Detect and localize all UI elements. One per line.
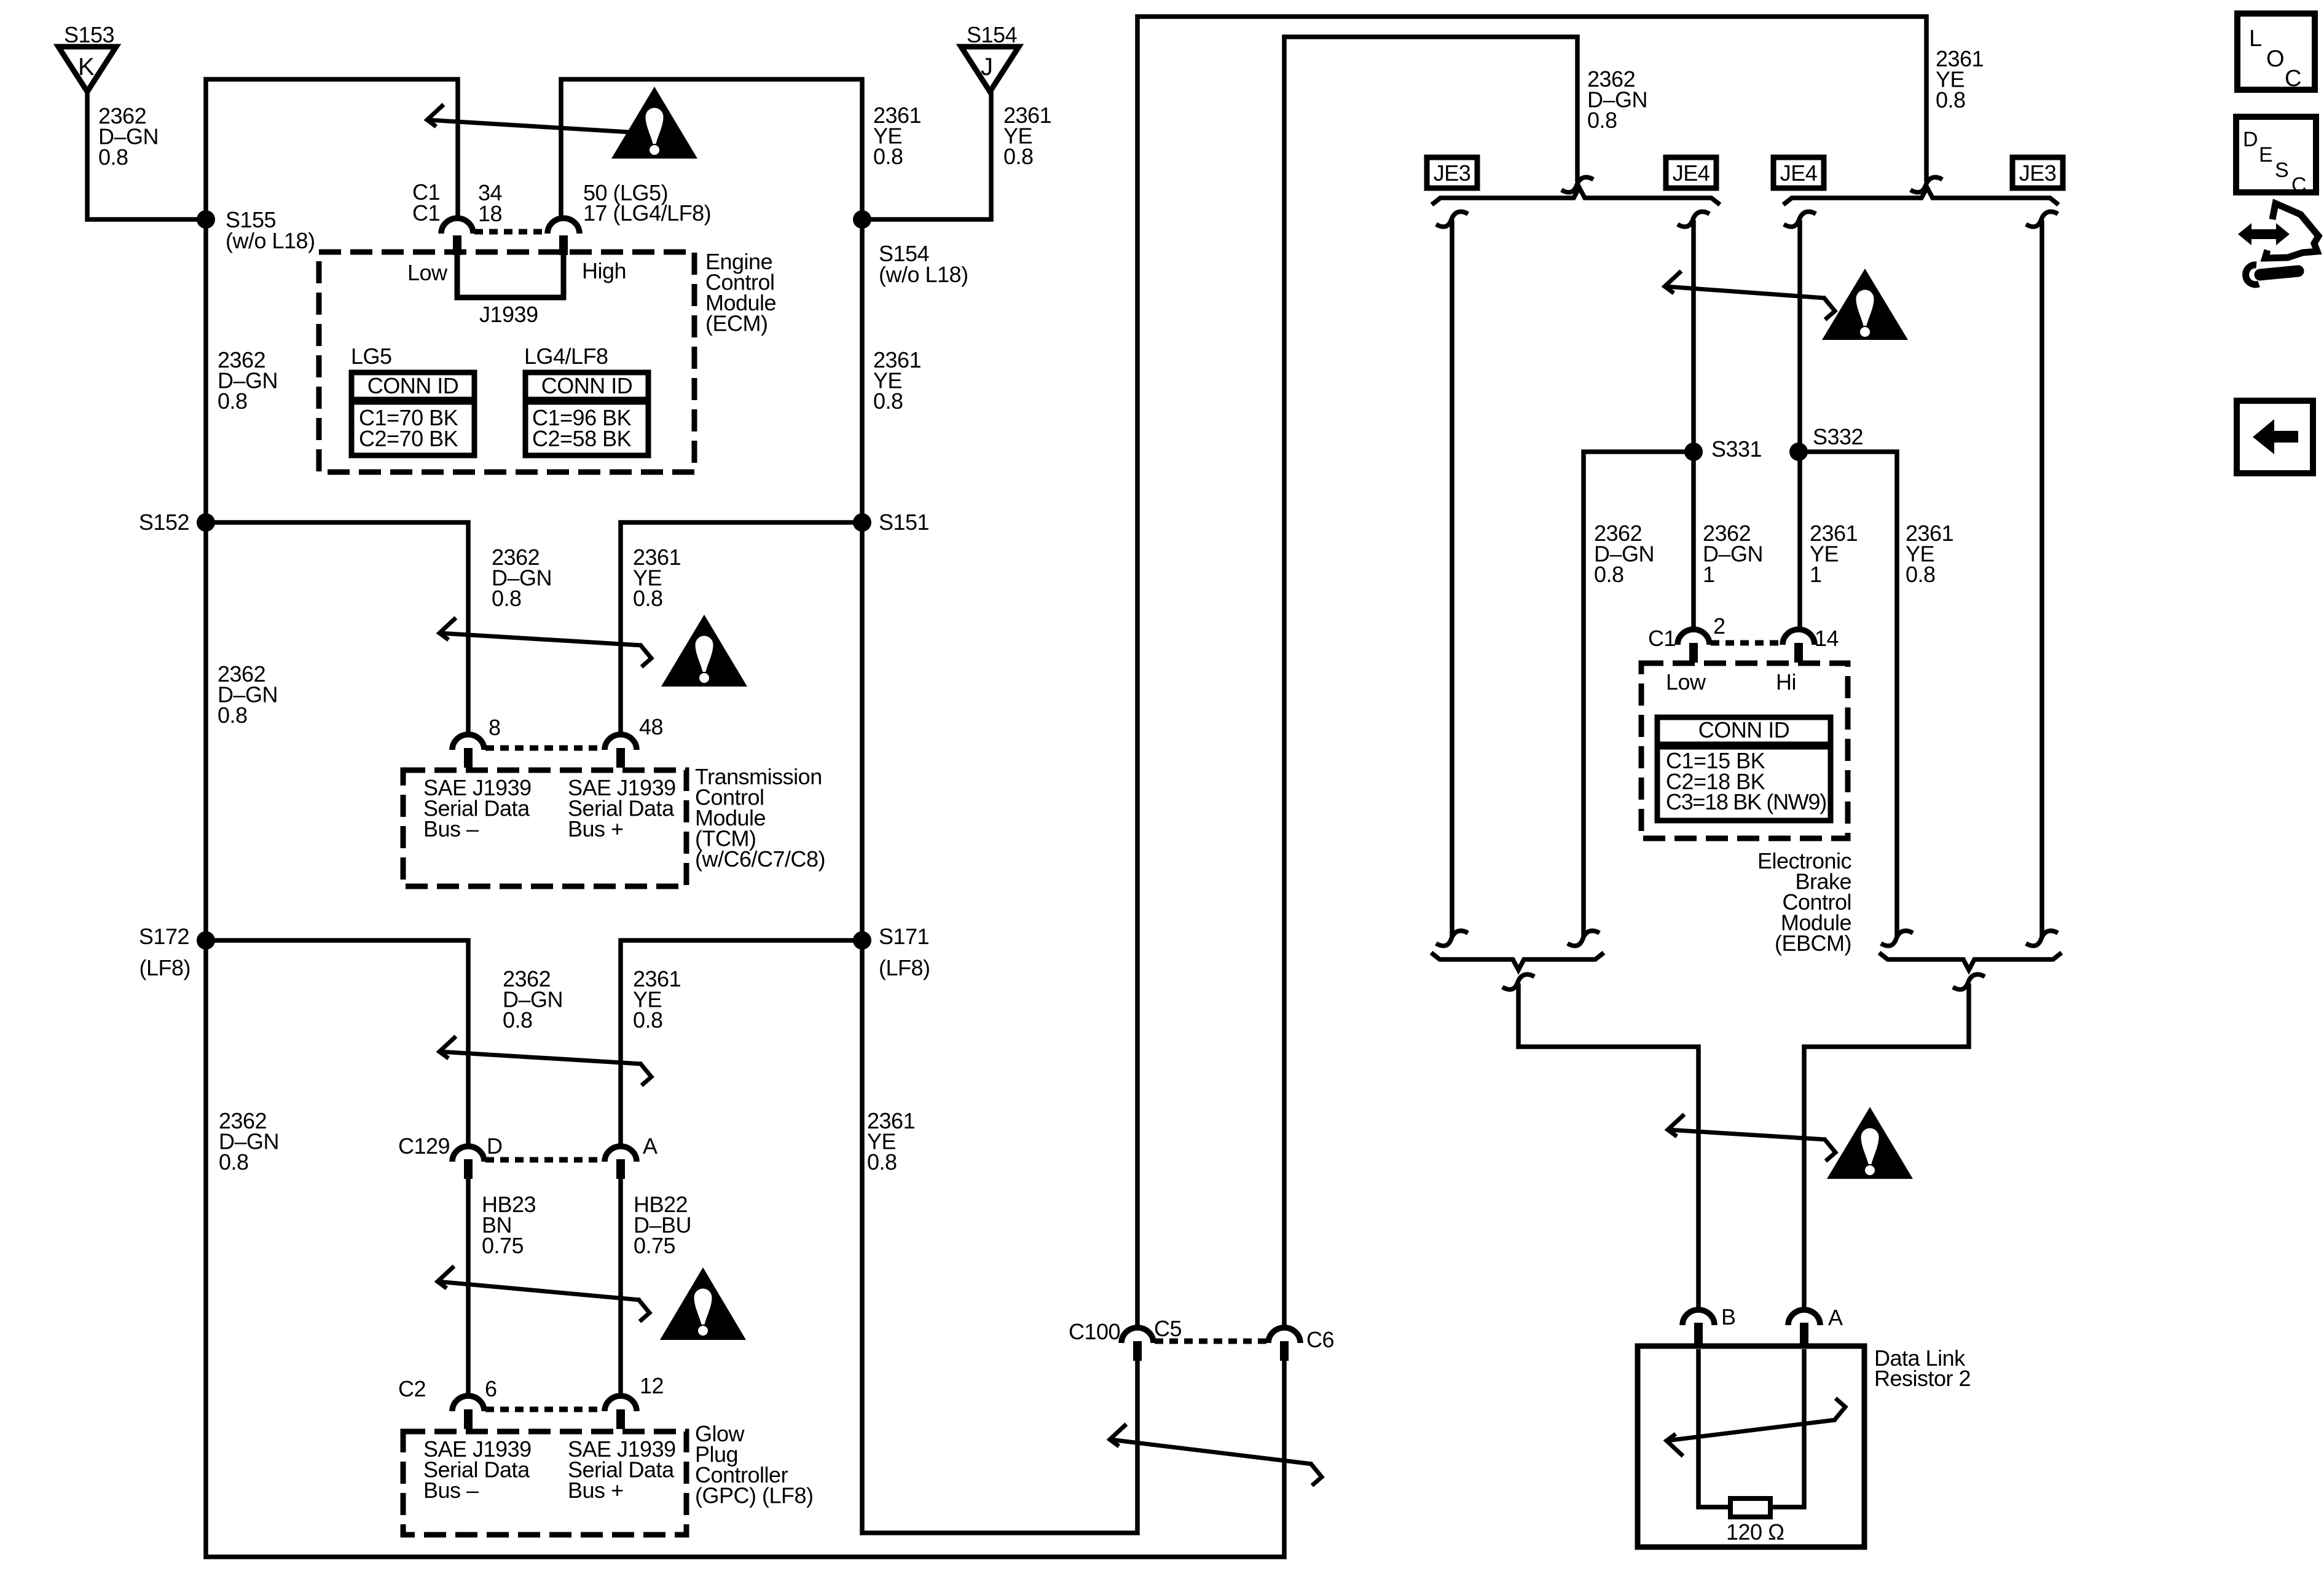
svg-text:B: B [1721,1304,1736,1329]
svg-text:120 Ω: 120 Ω [1726,1519,1784,1545]
svg-text:2: 2 [1713,613,1725,639]
svg-text:C1: C1 [412,200,440,226]
svg-text:Low: Low [407,260,448,285]
svg-text:0.8: 0.8 [218,703,248,728]
svg-text:C3=18 BK (NW9): C3=18 BK (NW9) [1666,789,1826,814]
svg-text:(w/C6/C7/C8): (w/C6/C7/C8) [695,846,825,872]
svg-text:Bus +: Bus + [568,1478,624,1503]
svg-text:D: D [2243,128,2258,151]
svg-text:48: 48 [639,714,663,739]
svg-text:S331: S331 [1711,436,1762,462]
svg-text:S: S [2275,159,2288,182]
svg-text:C: C [2285,66,2301,92]
svg-text:C100: C100 [1069,1319,1120,1344]
svg-text:0.8: 0.8 [1003,144,1034,169]
svg-text:JE4: JE4 [1673,160,1710,186]
svg-text:0.8: 0.8 [873,144,903,169]
svg-text:0.8: 0.8 [218,388,248,414]
svg-text:O: O [2266,46,2284,72]
svg-text:0.8: 0.8 [1587,108,1617,133]
svg-text:C1: C1 [1648,626,1676,651]
svg-text:(ECM): (ECM) [705,311,767,336]
svg-text:D: D [487,1133,503,1159]
svg-text:Bus –: Bus – [423,1478,479,1503]
svg-text:Low: Low [1666,669,1706,695]
svg-text:LG4/LF8: LG4/LF8 [524,344,608,369]
svg-text:0.8: 0.8 [219,1149,249,1175]
svg-text:8: 8 [489,715,501,740]
svg-text:C2: C2 [398,1376,426,1401]
svg-text:K: K [78,53,95,81]
svg-text:0.8: 0.8 [1594,562,1624,587]
svg-text:Resistor 2: Resistor 2 [1874,1366,1971,1391]
svg-text:LG5: LG5 [351,344,392,369]
svg-text:(EBCM): (EBCM) [1775,931,1851,956]
svg-text:S332: S332 [1813,424,1863,449]
svg-text:0.8: 0.8 [503,1007,533,1033]
svg-text:0.8: 0.8 [633,1007,663,1033]
svg-text:S171: S171 [879,924,929,949]
svg-text:JE4: JE4 [1780,160,1818,186]
svg-text:12: 12 [640,1373,664,1398]
svg-text:S151: S151 [879,510,929,535]
svg-text:J1939: J1939 [479,302,538,327]
svg-text:0.8: 0.8 [1906,562,1936,587]
svg-text:17 (LG4/LF8): 17 (LG4/LF8) [583,200,711,226]
svg-text:1: 1 [1703,562,1715,587]
svg-text:(w/o L18): (w/o L18) [879,262,968,287]
svg-text:A: A [1828,1305,1843,1330]
svg-text:(w/o L18): (w/o L18) [226,228,315,253]
svg-text:S172: S172 [139,924,189,949]
svg-text:S152: S152 [139,510,189,535]
svg-text:C2=58 BK: C2=58 BK [532,426,632,451]
svg-text:S154: S154 [967,22,1017,47]
svg-text:0.8: 0.8 [98,144,128,170]
svg-text:(LF8): (LF8) [879,955,930,980]
svg-text:C: C [2291,173,2306,197]
svg-text:18: 18 [478,201,502,226]
svg-text:(LF8): (LF8) [139,955,190,980]
svg-text:0.8: 0.8 [873,388,903,414]
svg-text:C5: C5 [1154,1316,1182,1341]
svg-text:S153: S153 [64,22,114,47]
svg-text:Bus +: Bus + [568,816,624,841]
svg-text:0.8: 0.8 [492,586,522,611]
svg-text:High: High [582,258,626,283]
svg-text:Bus –: Bus – [423,816,479,841]
svg-text:C129: C129 [398,1133,450,1159]
svg-text:0.75: 0.75 [634,1233,675,1258]
svg-text:(GPC) (LF8): (GPC) (LF8) [695,1483,814,1508]
svg-text:Hi: Hi [1776,669,1796,695]
svg-text:L: L [2249,26,2262,52]
svg-text:0.8: 0.8 [867,1149,897,1175]
svg-text:6: 6 [485,1376,497,1401]
svg-text:J: J [981,53,993,81]
svg-text:0.8: 0.8 [633,586,663,611]
svg-text:C6: C6 [1306,1327,1334,1352]
svg-text:CONN ID: CONN ID [1698,717,1790,742]
svg-text:1: 1 [1810,562,1822,587]
svg-text:E: E [2259,143,2272,167]
svg-text:A: A [643,1133,658,1159]
svg-text:JE3: JE3 [1434,160,1471,186]
svg-text:14: 14 [1815,626,1839,651]
svg-text:CONN ID: CONN ID [541,373,633,398]
svg-text:JE3: JE3 [2019,160,2057,186]
svg-text:0.75: 0.75 [482,1233,524,1258]
svg-text:CONN ID: CONN ID [367,373,459,398]
svg-text:C2=70 BK: C2=70 BK [359,426,458,451]
svg-text:0.8: 0.8 [1936,87,1966,112]
